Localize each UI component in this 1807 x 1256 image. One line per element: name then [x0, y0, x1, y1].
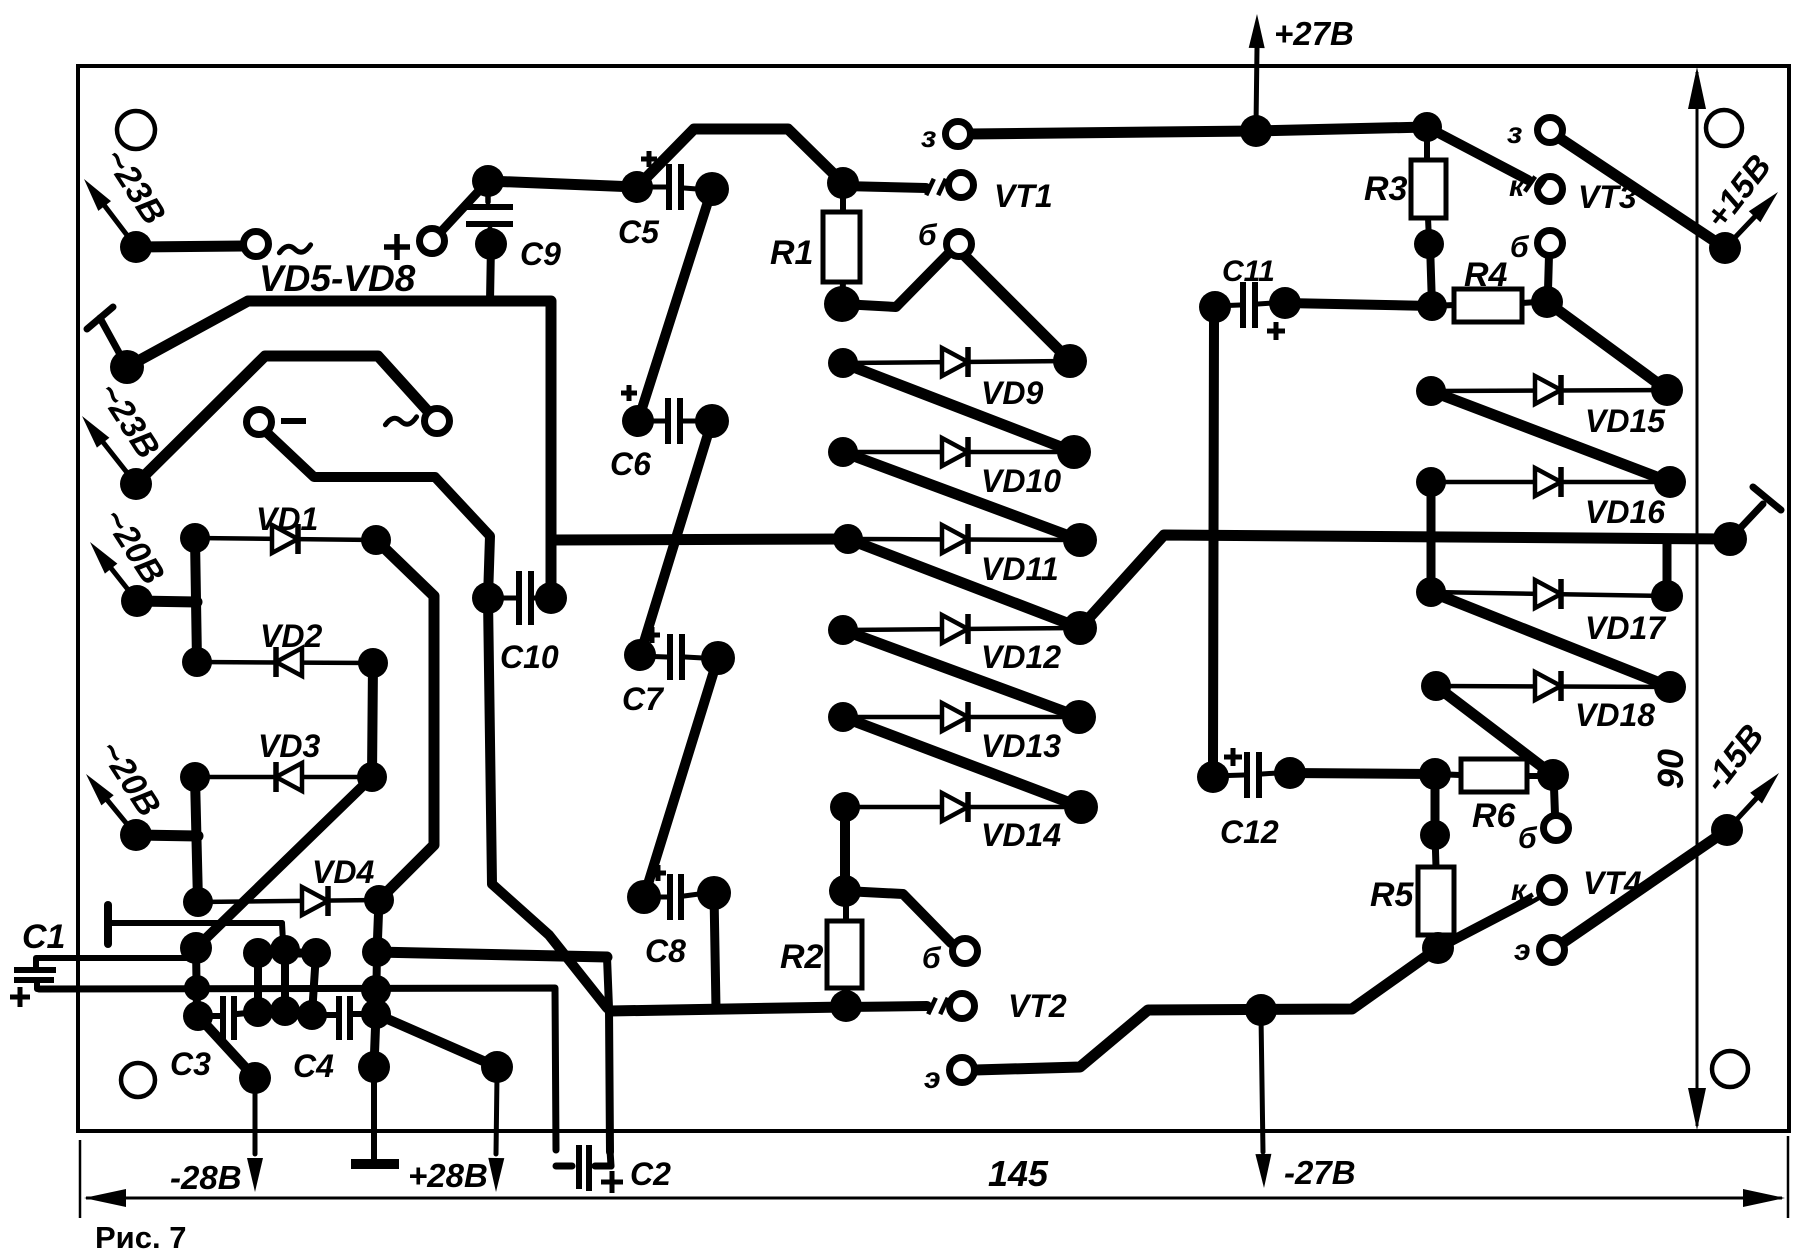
node pad VD1 left	[180, 523, 210, 553]
svg-text:VT2: VT2	[1008, 988, 1067, 1024]
node hole VT2 emitter	[950, 1058, 975, 1083]
node pad R4 right	[1531, 286, 1563, 318]
power arrow ~20V second	[86, 774, 136, 835]
power arrow +15V	[1725, 192, 1778, 248]
label VT4	[1583, 865, 1642, 901]
svg-text:VT3: VT3	[1578, 179, 1637, 215]
mounting hole top-left	[117, 111, 155, 149]
wire	[1548, 255, 1549, 290]
svg-text:VD13: VD13	[981, 728, 1061, 764]
label VD9	[981, 375, 1043, 411]
wire	[1427, 127, 1528, 180]
node pad C10 left	[472, 582, 504, 614]
svg-text:VD5-VD8: VD5-VD8	[259, 258, 416, 299]
wire	[1564, 830, 1727, 942]
svg-text:C3: C3	[170, 1046, 211, 1082]
node pad VD10 left	[828, 437, 858, 467]
wire	[842, 251, 951, 307]
svg-text:C9: C9	[520, 236, 561, 272]
node hole VT4 collector	[1540, 878, 1565, 903]
wire	[845, 891, 951, 943]
svg-text:з: з	[921, 121, 936, 154]
wire minus route	[262, 428, 490, 598]
node pad cluster F	[362, 937, 392, 967]
svg-text:VD15: VD15	[1585, 403, 1666, 439]
node pad ~23V second	[120, 468, 152, 500]
wire	[198, 1016, 255, 1078]
node pad ground bar	[358, 1051, 390, 1083]
wire	[312, 953, 316, 1015]
wire	[843, 717, 1081, 807]
wire	[637, 129, 843, 187]
label emitter VT3	[1507, 117, 1522, 150]
svg-text:VD2: VD2	[260, 618, 322, 654]
svg-text:C7: C7	[622, 681, 665, 717]
wire	[840, 183, 846, 212]
dimension line 145	[80, 1136, 1788, 1218]
node pad R2 bottom	[830, 990, 862, 1022]
wire	[842, 282, 843, 304]
label VD14	[981, 817, 1061, 853]
node pad R1 top	[827, 167, 859, 199]
diode VD4	[198, 886, 379, 916]
node hole VT3 collector	[1538, 177, 1563, 202]
dimension label 145	[988, 1153, 1049, 1194]
node pad VD1 right	[361, 525, 391, 555]
wire	[1438, 901, 1528, 948]
capacitor C3	[198, 996, 258, 1040]
node pad R1 bottom	[824, 286, 860, 322]
label VD11	[981, 551, 1059, 587]
node pad VD2 right	[358, 648, 388, 678]
node pad -27V junction	[1245, 994, 1277, 1026]
wire	[843, 988, 849, 1006]
svg-text:Рис. 7: Рис. 7	[95, 1220, 186, 1255]
diode VD17	[1431, 579, 1667, 609]
wire	[1431, 391, 1670, 482]
node pad T-stub	[110, 350, 144, 384]
label emitter VT1	[921, 121, 936, 154]
svg-text:C11: C11	[1222, 255, 1275, 288]
diode VD16	[1431, 467, 1670, 497]
diode VD3	[195, 762, 372, 792]
diode VD9	[843, 347, 1070, 377]
node pad cluster A	[180, 932, 212, 964]
wire	[1435, 835, 1436, 867]
label R4	[1464, 256, 1508, 294]
power arrow -27V	[1255, 1016, 1271, 1188]
svg-text:C2: C2	[630, 1156, 671, 1192]
label plus C5	[641, 151, 657, 167]
label -27V	[1284, 1154, 1356, 1191]
wire	[843, 630, 1079, 717]
wire C10 to bottom bus	[488, 598, 607, 1008]
label plus C2	[601, 1171, 623, 1193]
node pad VD15 left	[1416, 376, 1446, 406]
wire break VT2	[928, 998, 948, 1014]
label -15V	[1696, 717, 1771, 798]
diode VD14	[845, 792, 1081, 822]
node hole VT3 emitter	[1538, 118, 1563, 143]
label VD15	[1585, 403, 1666, 439]
svg-text:+28В: +28В	[408, 1157, 488, 1194]
wire	[377, 900, 379, 952]
wire	[137, 601, 197, 602]
resistor R3	[1411, 160, 1446, 218]
wire	[1561, 139, 1725, 248]
label VD18	[1575, 697, 1655, 733]
node pad C3 right	[243, 997, 273, 1027]
node pad VD12 left	[828, 615, 858, 645]
svg-text:VD17: VD17	[1585, 610, 1667, 646]
node pad VD14 left	[830, 792, 860, 822]
svg-text:VT1: VT1	[994, 178, 1053, 214]
node pad R3 bottom	[1414, 229, 1444, 259]
node pad R4 junction	[1417, 291, 1447, 321]
node pad C4 right	[361, 999, 391, 1029]
label C1	[22, 918, 65, 956]
wire	[195, 777, 198, 902]
label emitter VT4	[1514, 934, 1531, 967]
node pad cluster B	[184, 975, 210, 1001]
wire break VT3	[1525, 177, 1547, 192]
label C8	[645, 933, 686, 969]
node hole VT1 base	[947, 232, 972, 257]
node pad R3 top	[1412, 112, 1442, 142]
svg-text:C6: C6	[610, 446, 651, 482]
wire	[281, 950, 289, 1011]
wire zigzag to R5	[975, 948, 1438, 1070]
wire VD5-VD8 bus	[127, 301, 551, 598]
wire	[488, 181, 637, 187]
node pad C8 right	[697, 876, 731, 910]
node hole minus	[247, 410, 272, 435]
capacitor C8	[644, 874, 699, 920]
node pad R6 right	[1537, 759, 1569, 791]
terminal T-stub right	[1730, 487, 1781, 539]
wire	[136, 246, 244, 247]
node pad C8 left	[627, 880, 661, 914]
label plus C11	[1267, 322, 1285, 340]
node pad R5 mid	[1420, 820, 1450, 850]
wire	[846, 1006, 927, 1007]
node hole VT2 base	[953, 939, 978, 964]
wire	[1428, 218, 1429, 240]
label plus C12	[1224, 748, 1242, 766]
node pad VD4 right	[364, 885, 394, 915]
wire	[843, 186, 926, 188]
label base VT3	[1510, 231, 1530, 264]
capacitor C9	[466, 181, 513, 244]
wire peak trace	[136, 356, 434, 484]
node pad cluster E	[301, 938, 331, 968]
mounting hole bottom-left	[121, 1063, 155, 1097]
label C5	[618, 214, 660, 250]
node pad +28V	[481, 1051, 513, 1083]
label C6	[610, 446, 651, 482]
label VD13	[981, 728, 1061, 764]
node pad VD4 left	[183, 887, 213, 917]
label collector VT4	[1511, 874, 1528, 907]
node hole VT4 emitter	[1540, 938, 1565, 963]
capacitor C11	[1215, 282, 1272, 328]
power arrow ~23V top	[84, 179, 136, 247]
wire	[638, 189, 712, 421]
capacitor C5	[637, 164, 697, 210]
label R1	[770, 234, 813, 272]
diode VD10	[843, 437, 1074, 467]
resistor R6	[1461, 759, 1527, 792]
dimension line 90	[1688, 67, 1706, 1130]
label +15V	[1698, 148, 1779, 236]
node pad mid C3C4	[270, 996, 300, 1026]
wire mid bus left	[551, 539, 848, 540]
wire	[254, 953, 262, 1012]
node pad C6 left	[622, 405, 654, 437]
label +28V	[408, 1157, 488, 1194]
wire	[959, 250, 1063, 354]
node pad VD2 left	[182, 647, 212, 677]
label VD10	[981, 463, 1061, 499]
node pad C12 right	[1274, 757, 1306, 789]
node pad cluster D	[270, 935, 300, 965]
wire	[1285, 303, 1432, 306]
node pad VD18 left	[1421, 671, 1451, 701]
wire	[843, 363, 1074, 452]
capacitor C7	[640, 634, 703, 680]
svg-text:б: б	[918, 219, 938, 252]
node pad C9 top	[472, 165, 504, 197]
label R3	[1364, 170, 1408, 208]
label ~23V second	[90, 376, 167, 466]
node pad C11 right	[1269, 287, 1301, 319]
node pad VD14 right	[1064, 790, 1098, 824]
wire C11-C12 vertical	[1213, 320, 1214, 762]
svg-text:б: б	[922, 942, 942, 975]
label minus	[281, 418, 306, 424]
node pad VD16 right	[1654, 466, 1686, 498]
node pad R2 top	[829, 875, 861, 907]
svg-text:VT4: VT4	[1583, 865, 1642, 901]
node pad C9 bottom	[475, 228, 507, 260]
node pad VD17 left	[1416, 577, 1446, 607]
wire	[1663, 539, 1672, 586]
svg-text:VD4: VD4	[312, 854, 374, 890]
svg-text:VD1: VD1	[256, 501, 318, 537]
wire	[1527, 773, 1541, 779]
svg-text:VD10: VD10	[981, 463, 1061, 499]
power arrow -28V	[247, 1086, 263, 1192]
svg-text:R3: R3	[1364, 170, 1408, 208]
capacitor C10	[488, 571, 538, 625]
node pad VD18 right	[1654, 671, 1686, 703]
node pad ~20V second	[120, 819, 152, 851]
capacitor C2	[556, 1145, 611, 1191]
label plus C1	[10, 987, 30, 1007]
node pad C7 right	[701, 641, 735, 675]
svg-text:C12: C12	[1220, 814, 1279, 850]
label plus C7	[644, 627, 660, 643]
svg-text:C10: C10	[500, 639, 559, 675]
wire break VT4	[1517, 895, 1545, 904]
label plus rectifier	[384, 234, 410, 260]
diode VD15	[1431, 375, 1667, 405]
label collector VT3	[1509, 170, 1526, 203]
wire	[714, 893, 716, 1009]
power arrow +27V	[1249, 14, 1265, 126]
wire	[377, 952, 607, 957]
resistor R5	[1418, 867, 1454, 935]
node pad R6 junction	[1419, 758, 1451, 790]
wire	[1432, 305, 1454, 306]
wire	[490, 244, 491, 301]
mounting hole top-right	[1706, 110, 1742, 146]
label VT1	[994, 178, 1053, 214]
svg-text:э: э	[1514, 934, 1531, 967]
node pad C12 left	[1197, 761, 1229, 793]
svg-text:90: 90	[1650, 749, 1691, 789]
svg-text:145: 145	[988, 1153, 1049, 1194]
node pad VD13 left	[828, 702, 858, 732]
power arrow ~23V second	[82, 416, 136, 484]
node pad VD11 right	[1063, 523, 1097, 557]
node hole VT1 emitter	[946, 122, 971, 147]
label base VT1	[918, 219, 938, 252]
wire	[1431, 774, 1440, 835]
wire	[196, 777, 372, 948]
wire	[843, 891, 849, 921]
label +27V	[1274, 15, 1354, 52]
svg-text:R6: R6	[1472, 797, 1517, 835]
wire	[258, 949, 316, 958]
node hole rectifier plus	[420, 229, 445, 254]
label VT2	[1008, 988, 1067, 1024]
wire	[1547, 302, 1667, 390]
node pad -15V	[1711, 814, 1743, 846]
node pad VD11 left	[833, 524, 863, 554]
node pad right bus end	[1713, 522, 1747, 556]
node pad VD3 right	[357, 762, 387, 792]
svg-text:VD3: VD3	[258, 728, 320, 764]
label -28V	[170, 1159, 242, 1196]
capacitor C12	[1213, 752, 1277, 798]
node pad +15V	[1709, 232, 1741, 264]
node pad ~23V top	[120, 231, 152, 263]
wire top bus	[969, 127, 1427, 134]
wire	[1436, 686, 1553, 775]
wire	[1290, 773, 1435, 774]
capacitor C4	[312, 996, 376, 1040]
svg-text:VD11: VD11	[981, 551, 1059, 587]
diode VD12	[843, 614, 1080, 644]
label ~ top	[279, 245, 310, 253]
node pad R5 bottom	[1422, 932, 1454, 964]
wire	[1427, 482, 1436, 592]
svg-text:-27В: -27В	[1284, 1154, 1356, 1191]
wire	[437, 181, 488, 236]
label C9	[520, 236, 561, 272]
wire	[376, 1014, 497, 1067]
label R6	[1472, 797, 1517, 835]
label VD5-VD8	[259, 258, 416, 299]
label C2	[630, 1156, 671, 1192]
diode VD2	[197, 647, 373, 677]
wire bottom bus	[610, 1007, 846, 1011]
wire	[196, 948, 197, 1016]
node hole VT4 base	[1544, 816, 1569, 841]
label C7	[622, 681, 665, 717]
node pad VD3 left	[180, 762, 210, 792]
svg-text:б: б	[1518, 822, 1538, 855]
node hole VT3 base	[1538, 231, 1563, 256]
node pad ~20V first	[121, 585, 153, 617]
svg-text:R2: R2	[780, 938, 824, 976]
wire	[136, 835, 198, 836]
svg-text:C5: C5	[618, 214, 660, 250]
label VD3	[258, 728, 320, 764]
svg-text:R4: R4	[1464, 256, 1508, 294]
wire	[376, 540, 434, 900]
label base VT2	[922, 942, 942, 975]
svg-text:VD18: VD18	[1575, 697, 1655, 733]
terminal T-stub left	[87, 307, 127, 367]
svg-text:VD14: VD14	[981, 817, 1061, 853]
label emitter VT2	[924, 1062, 941, 1095]
resistor R4	[1454, 289, 1522, 322]
label C10	[500, 639, 559, 675]
power arrow -15V	[1727, 773, 1779, 830]
label C3	[170, 1046, 211, 1082]
svg-text:з: з	[1507, 117, 1522, 150]
wire	[840, 807, 850, 891]
mounting hole bottom-right	[1712, 1051, 1748, 1087]
svg-text:э: э	[924, 1062, 941, 1095]
power arrow ~20V first	[90, 542, 137, 601]
svg-text:к: к	[1511, 874, 1528, 907]
label R5	[1370, 876, 1415, 914]
node pad C10 right	[535, 582, 567, 614]
svg-text:VD12: VD12	[981, 639, 1061, 675]
node pad VD15 right	[1651, 374, 1683, 406]
node pad C5 right	[695, 172, 729, 206]
wire	[372, 663, 373, 777]
wire	[1522, 302, 1537, 303]
capacitor C1	[14, 958, 190, 989]
node pad C7 left	[624, 639, 656, 671]
label plus C8	[650, 865, 666, 881]
diode VD13	[843, 702, 1079, 732]
ground bar terminal	[351, 1076, 399, 1164]
wire	[1554, 787, 1555, 815]
node hole VT2 collector	[950, 994, 975, 1019]
node pad C11 left	[1199, 291, 1231, 323]
label ~ mid	[385, 417, 416, 425]
wire	[607, 957, 610, 1152]
label VD2	[260, 618, 322, 654]
label ~20V second	[91, 734, 168, 824]
wire	[843, 452, 1080, 540]
svg-text:C4: C4	[293, 1048, 334, 1084]
power arrow +28V	[488, 1076, 504, 1192]
wire	[376, 952, 377, 1014]
svg-text:+27В: +27В	[1274, 15, 1354, 52]
label R2	[780, 938, 824, 976]
svg-text:R1: R1	[770, 234, 813, 272]
node hole VT1 collector	[949, 173, 974, 198]
resistor R1	[823, 212, 860, 282]
svg-text:C8: C8	[645, 933, 686, 969]
wire	[1430, 244, 1432, 306]
